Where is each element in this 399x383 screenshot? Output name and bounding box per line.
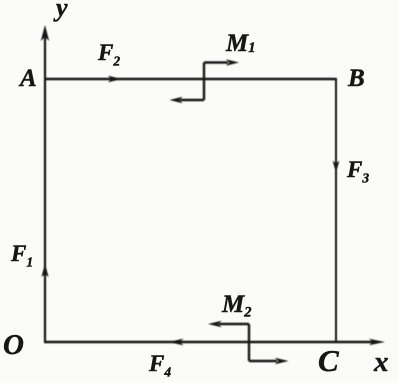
node x-axis arrowhead [369, 339, 385, 345]
svg-text:B: B [347, 65, 365, 92]
wire y-axis shaft [44, 30, 46, 342]
force F4 arrowhead (left along bottom edge) [169, 339, 184, 346]
moment M1 symbol [170, 59, 240, 103]
svg-text:O: O [3, 329, 24, 361]
force F3 arrowhead (down along right edge) [333, 161, 340, 174]
svg-text:x: x [373, 346, 389, 378]
force F2 arrowhead (right along top edge) [108, 76, 122, 83]
wire top edge AB [44, 78, 336, 80]
force F1 arrowhead (up along y-axis) [41, 264, 48, 278]
node y-axis arrowhead [41, 25, 49, 41]
moment M2 symbol [208, 321, 289, 365]
wire right edge BC [335, 78, 337, 342]
svg-text:y: y [53, 0, 68, 22]
wire x-axis shaft [44, 341, 376, 343]
svg-text:A: A [18, 65, 37, 92]
svg-text:C: C [318, 343, 339, 378]
